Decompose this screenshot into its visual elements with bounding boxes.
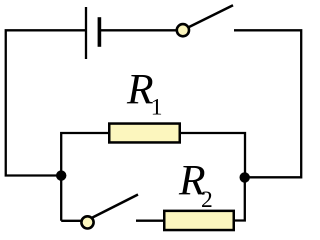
switch S2 pivot circle [81, 216, 93, 228]
switch S1 lever [186, 5, 234, 28]
wire: left vertical + top horizontal to battery [6, 30, 86, 175]
wire: bottom from node A to switch S2 [61, 220, 81, 222]
wire: R2 right up to node B [235, 177, 245, 221]
wire: switch S2 to R2 [136, 220, 164, 222]
node A junction dot [56, 170, 66, 180]
svg-text:1: 1 [151, 95, 163, 121]
resistor R1 [109, 124, 180, 143]
wire: battery to top switch [99, 29, 178, 31]
wire: top switch to right vertical down to node B [234, 30, 301, 177]
wire: R1 branch left [61, 133, 109, 221]
wire: R1 right to node B [181, 133, 246, 174]
switch S1 pivot circle [177, 24, 189, 36]
battery B1 long plate (+) [85, 7, 87, 59]
svg-text:R: R [126, 66, 154, 114]
svg-text:2: 2 [201, 187, 213, 213]
battery B1 short plate (-) [98, 17, 102, 47]
resistor R2 [164, 211, 234, 230]
node B junction dot [240, 172, 250, 182]
switch S2 lever [91, 195, 139, 219]
